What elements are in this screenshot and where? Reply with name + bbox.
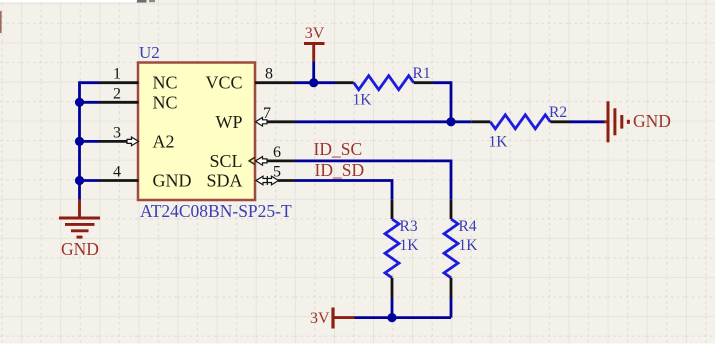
wire: SDA run to R3: [295, 181, 392, 200]
wire: R1 to WP rail: [433, 83, 451, 122]
wire: R4 lower stub: [450, 298, 453, 318]
pin 8 VCC: [255, 81, 295, 84]
pin 2 NC: [99, 101, 139, 104]
junction R1 / WP / R2: [446, 117, 455, 126]
junction on pin 3: [75, 137, 84, 146]
svg-text:1K: 1K: [400, 237, 420, 254]
ground GND (right, earth bars): [604, 101, 628, 142]
svg-text:6: 6: [273, 144, 281, 161]
ground GND (left): [59, 200, 100, 237]
pin 4 GND: [99, 179, 139, 182]
svg-text:ID_SC: ID_SC: [314, 139, 363, 159]
wire: SCL run to R4: [295, 161, 451, 200]
resistor R3: [391, 200, 394, 219]
svg-text:R1: R1: [413, 65, 431, 82]
svg-text:R4: R4: [459, 218, 477, 235]
wire: stub to pin 3: [80, 140, 100, 143]
svg-text:1K: 1K: [459, 237, 479, 254]
svg-text:AT24C08BN-SP25-T: AT24C08BN-SP25-T: [140, 201, 292, 221]
wire: WP rail: [295, 120, 471, 123]
svg-text:GND: GND: [61, 239, 99, 259]
junction R3 / bottom rail: [387, 313, 396, 322]
svg-text:NC: NC: [153, 73, 178, 93]
svg-text:R2: R2: [549, 104, 567, 121]
svg-text:8: 8: [265, 66, 273, 83]
svg-text:ID_SD: ID_SD: [315, 160, 365, 180]
svg-text:5: 5: [273, 163, 281, 180]
pin 7 WP: [267, 120, 295, 123]
pin 3 A2: [99, 140, 128, 143]
cropped component sliver at left edge: [0, 11, 2, 33]
svg-text:NC: NC: [153, 92, 178, 112]
svg-text:VCC: VCC: [205, 73, 242, 93]
svg-text:4: 4: [113, 164, 121, 181]
svg-text:WP: WP: [216, 112, 243, 132]
white strip bottom edge: [0, 344, 715, 348]
junction on pin 4: [75, 176, 84, 185]
svg-text:1: 1: [113, 66, 121, 83]
resistor R4: [450, 200, 453, 219]
svg-text:1K: 1K: [353, 92, 373, 109]
svg-text:U2: U2: [139, 43, 160, 62]
pin 6 SCL: [266, 159, 295, 162]
svg-text:3V: 3V: [310, 310, 330, 327]
svg-text:A2: A2: [153, 131, 175, 151]
svg-text:7: 7: [263, 105, 271, 122]
junction 3V / pin8 / R1: [309, 78, 318, 87]
wire: stub to pin 4: [80, 179, 100, 182]
pin 5 SDA: [278, 179, 295, 182]
svg-text:SDA: SDA: [206, 171, 242, 191]
wire: pin8 to R1: [295, 81, 335, 84]
cropped designator fragment at top edge: [137, 0, 147, 3]
resistor R2: [471, 120, 490, 123]
resistor R1: [335, 81, 354, 84]
power 3V (top): [304, 42, 325, 45]
junction on pin 2: [75, 98, 84, 107]
wire: bottom 3V rail: [355, 316, 452, 319]
wire: left vertical bus from pin1 corner down to GND: [80, 83, 100, 200]
svg-text:1K: 1K: [489, 133, 509, 150]
svg-text:SCL: SCL: [209, 151, 242, 171]
power 3V (bottom): [331, 308, 334, 329]
svg-text:3V: 3V: [305, 25, 325, 42]
svg-text:3: 3: [113, 124, 121, 141]
svg-text:GND: GND: [633, 111, 671, 131]
svg-text:GND: GND: [153, 171, 192, 191]
wire: R2 to earth: [570, 120, 606, 123]
pin 1 NC: [99, 81, 139, 84]
wire: stub to pin 2: [80, 101, 100, 104]
IC U2 body: [138, 63, 255, 201]
svg-text:R3: R3: [400, 218, 418, 235]
wire: 3V stem to VCC rail: [312, 62, 315, 83]
white strip top-left edge: [0, 0, 137, 2]
wire: R3 lower stub: [391, 298, 394, 318]
svg-text:2: 2: [113, 85, 121, 102]
